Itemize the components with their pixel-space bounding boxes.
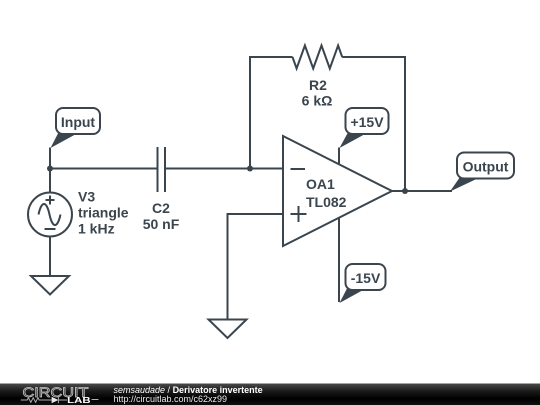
logo squiggle resistor-diode [21, 397, 99, 403]
flag box Input [56, 108, 100, 134]
svg-text:Output: Output [463, 158, 509, 174]
wire feedback left vertical and top to resistor [250, 57, 293, 169]
op-amp OA1 triangle [283, 136, 392, 246]
svg-text:6 kΩ: 6 kΩ [302, 93, 333, 109]
wire op-amp V+ pin [338, 148, 340, 165]
svg-text:R2: R2 [309, 77, 327, 93]
ground 1 triangle [31, 276, 69, 295]
wire C2 right plate to op-amp inverting input [165, 168, 283, 170]
svg-text:V3: V3 [78, 189, 95, 205]
capacitor C2 [158, 147, 166, 192]
op-amp plus sign [291, 206, 307, 222]
resistor R2 [293, 46, 343, 69]
wire input node to C2 left plate [50, 168, 158, 170]
flag tail +15V [340, 132, 367, 149]
flag tail Input [51, 132, 78, 149]
wire resistor right to output node [342, 57, 405, 191]
svg-text:http://circuitlab.com/c62xz99: http://circuitlab.com/c62xz99 [114, 394, 228, 404]
footer bar [0, 384, 540, 405]
svg-text:LAB: LAB [67, 396, 91, 405]
wire non-inverting input to ground [228, 214, 284, 320]
op-amp minus sign [291, 168, 306, 170]
node inverting junction [247, 166, 253, 172]
voltage source V3 [28, 193, 72, 237]
node input [47, 166, 53, 172]
wire op-amp V- pin [338, 218, 340, 303]
ground 2 triangle [209, 320, 247, 339]
flag box -15V [346, 264, 386, 290]
flag box +15V [346, 108, 389, 134]
svg-text:TL082: TL082 [306, 194, 347, 210]
svg-text:50 nF: 50 nF [143, 216, 180, 232]
wire output [392, 190, 452, 192]
flag tail -15V [340, 288, 365, 304]
flag box Output [457, 153, 514, 179]
svg-text:triangle: triangle [78, 205, 129, 221]
svg-text:C2: C2 [152, 200, 170, 216]
flag tail Output [450, 177, 478, 192]
node output [402, 188, 408, 194]
svg-text:1 kHz: 1 kHz [78, 221, 115, 237]
svg-text:-15V: -15V [351, 270, 381, 286]
wire input vertical [49, 148, 51, 193]
svg-text:Input: Input [61, 114, 96, 130]
svg-text:OA1: OA1 [306, 176, 335, 192]
logo diode triangle [52, 397, 59, 403]
wire V3 to ground [49, 237, 51, 277]
svg-text:+15V: +15V [350, 114, 384, 130]
